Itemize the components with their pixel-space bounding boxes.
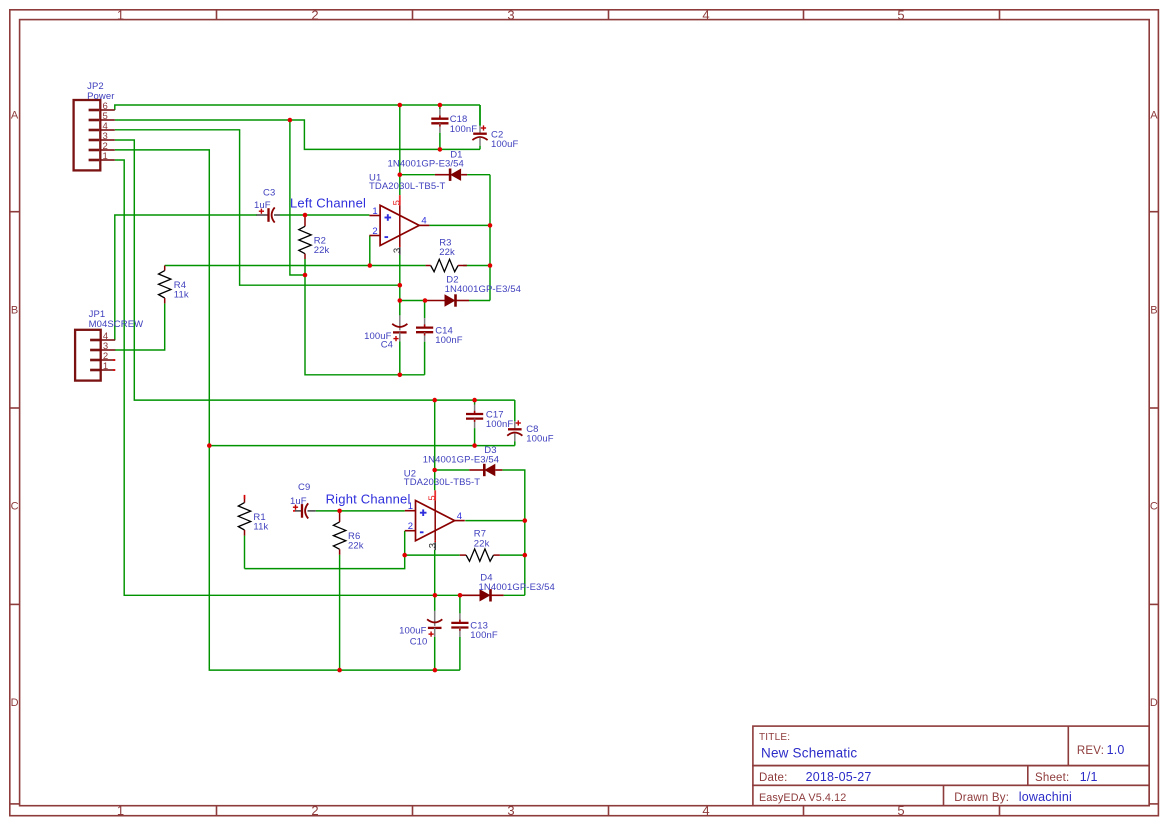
wire D1 row left segment xyxy=(400,174,435,176)
resistor R3 22k xyxy=(426,237,467,271)
svg-text:11k: 11k xyxy=(174,290,189,301)
wire U1 pin2 down to feedback rail xyxy=(369,236,371,266)
wire D3 row left segment xyxy=(435,469,470,471)
svg-text:1N4001GP-E3/54: 1N4001GP-E3/54 xyxy=(423,454,499,465)
wire R4 top feedback rail to R3 left xyxy=(165,265,426,267)
svg-text:New Schematic: New Schematic xyxy=(761,746,857,761)
svg-text:2: 2 xyxy=(408,521,413,532)
wire D3 row right to U2 right column down to D4 row xyxy=(502,470,524,595)
svg-text:1: 1 xyxy=(372,206,377,217)
svg-text:EasyEDA V5.4.12: EasyEDA V5.4.12 xyxy=(759,792,846,804)
svg-text:4: 4 xyxy=(702,8,709,23)
diode D3 1N4001GP-E3/54 xyxy=(423,445,503,476)
node label Left Channel xyxy=(290,196,366,211)
svg-text:100nF: 100nF xyxy=(435,335,463,346)
svg-text:4: 4 xyxy=(702,803,709,818)
wire R6 bottom to ground rail xyxy=(339,555,341,670)
capacitor C18 100nF xyxy=(431,105,477,149)
wire U2 output pin4 to right column xyxy=(465,520,525,522)
wire +V rail from JP2 pin6 to top rail xyxy=(115,105,480,110)
svg-text:A: A xyxy=(11,110,19,122)
wire U1 output pin4 to right column xyxy=(429,224,490,226)
svg-text:TDA2030L-TB5-T: TDA2030L-TB5-T xyxy=(369,181,445,192)
capacitor C13 100nF xyxy=(451,595,498,670)
svg-text:5: 5 xyxy=(897,8,904,23)
svg-text:3: 3 xyxy=(507,8,514,23)
op-amp U1 TDA2030L-TB5-T xyxy=(369,172,445,255)
diode D2 1N4001GP-E3/54 xyxy=(425,275,521,307)
capacitor C3 1uF xyxy=(254,188,280,223)
svg-text:22k: 22k xyxy=(474,538,490,549)
svg-text:5: 5 xyxy=(427,495,438,500)
wire JP2 pin1 to D4 row xyxy=(115,160,435,595)
svg-text:4: 4 xyxy=(457,511,462,522)
resistor R4 11k xyxy=(159,266,189,304)
svg-text:D: D xyxy=(1150,697,1158,709)
svg-text:C: C xyxy=(1150,501,1158,513)
title block xyxy=(753,726,1149,806)
svg-text:M04SCREW: M04SCREW xyxy=(89,319,144,330)
svg-text:2: 2 xyxy=(372,226,377,237)
svg-text:100uF: 100uF xyxy=(526,433,554,444)
svg-text:Right Channel: Right Channel xyxy=(326,491,411,506)
svg-text:C10: C10 xyxy=(410,636,428,647)
wire D2 row right segment xyxy=(469,300,490,302)
op-amp U2 TDA2030L-TB5-T xyxy=(404,468,480,550)
capacitor C14 100nF xyxy=(416,301,463,375)
capacitor C17 100nF xyxy=(466,400,513,446)
resistor R6 22k xyxy=(333,511,363,555)
wire U2 +V column from top rail to pin5 xyxy=(434,400,436,490)
svg-text:Drawn By:: Drawn By: xyxy=(954,792,1009,804)
svg-text:1.0: 1.0 xyxy=(1107,743,1125,757)
wire R3 right to U1 output column xyxy=(463,265,490,267)
svg-text:B: B xyxy=(11,305,18,317)
svg-text:1N4001GP-E3/54: 1N4001GP-E3/54 xyxy=(445,284,521,295)
wire R7 row left segment xyxy=(405,554,460,556)
resistor R1 11k xyxy=(238,495,268,536)
svg-text:Power: Power xyxy=(87,91,114,102)
wire R2 bottom rail to C4/C14 bottom xyxy=(305,275,425,375)
diode D1 1N4001GP-E3/54 xyxy=(388,149,468,181)
svg-text:C: C xyxy=(11,501,19,513)
svg-text:1: 1 xyxy=(117,8,124,23)
svg-text:1uF: 1uF xyxy=(290,496,307,507)
wire JP2 pin4 to U1 inverting node xyxy=(115,130,400,285)
svg-text:100nF: 100nF xyxy=(470,630,498,641)
wire R1 bottom segment xyxy=(244,536,246,569)
capacitor C2 100uF polarized xyxy=(472,105,518,150)
wire C3 left to JP1 pin4 xyxy=(115,215,257,340)
wire D2 row left segment xyxy=(400,300,425,302)
junction dots xyxy=(207,103,527,673)
wire C3 right to U1 pin1 xyxy=(280,214,369,216)
wire U1 +V column to pin5 xyxy=(399,105,401,195)
svg-text:3: 3 xyxy=(392,248,403,253)
wire JP2 pin2 to bottom ground rail xyxy=(115,150,460,670)
svg-text:1N4001GP-E3/54: 1N4001GP-E3/54 xyxy=(479,582,555,593)
wire C17/C8 bottom rail xyxy=(209,445,515,447)
wire branch pin5 node to R2 bottom xyxy=(290,120,305,275)
svg-text:B: B xyxy=(1150,305,1157,317)
connector JP1 M04SCREW xyxy=(75,309,143,381)
wire R7 row right segment xyxy=(500,554,525,556)
svg-text:2018-05-27: 2018-05-27 xyxy=(806,770,872,784)
svg-text:TDA2030L-TB5-T: TDA2030L-TB5-T xyxy=(404,477,480,488)
svg-text:1: 1 xyxy=(103,151,108,162)
svg-text:Left Channel: Left Channel xyxy=(290,196,366,211)
svg-text:2: 2 xyxy=(311,803,318,818)
svg-text:22k: 22k xyxy=(439,247,455,258)
wire JP2 pin3 to C17/C8 top rail xyxy=(115,140,515,400)
wire D1 row right segment xyxy=(467,174,490,176)
svg-text:REV:: REV: xyxy=(1077,745,1104,757)
svg-text:22k: 22k xyxy=(314,245,330,256)
wire C9 right to U2 pin1 xyxy=(316,510,405,512)
wire U2 pin2 down and left to R1 bottom xyxy=(245,531,405,569)
wire JP2 pin5 to C18/C2 bottom rail xyxy=(115,120,480,149)
capacitor C4 100uF polarized xyxy=(364,301,407,375)
wire D4 row right segment xyxy=(504,594,525,596)
wire JP1 pin3 to R4 bottom xyxy=(115,303,165,350)
svg-text:1N4001GP-E3/54: 1N4001GP-E3/54 xyxy=(388,159,464,170)
svg-text:22k: 22k xyxy=(348,541,364,552)
svg-text:100uF: 100uF xyxy=(491,139,519,150)
svg-text:1: 1 xyxy=(103,361,108,372)
svg-text:3: 3 xyxy=(427,543,438,548)
svg-text:1/1: 1/1 xyxy=(1080,770,1098,784)
wire D4 row left segment xyxy=(435,594,460,596)
capacitor C8 100uF polarized xyxy=(507,400,554,446)
svg-text:D: D xyxy=(11,697,19,709)
svg-text:TITLE:: TITLE: xyxy=(759,732,790,743)
svg-text:lowachini: lowachini xyxy=(1019,790,1072,804)
svg-text:C4: C4 xyxy=(381,340,393,351)
capacitor C10 100uF polarized xyxy=(399,595,442,670)
svg-text:5: 5 xyxy=(392,200,403,205)
svg-text:3: 3 xyxy=(507,803,514,818)
svg-text:11k: 11k xyxy=(253,521,268,532)
svg-text:100uF: 100uF xyxy=(399,626,427,637)
resistor R7 22k xyxy=(460,529,500,562)
wire U1 pin3 column down to C4 xyxy=(399,255,401,302)
capacitor C9 1uF xyxy=(290,482,316,519)
svg-text:A: A xyxy=(1150,110,1158,122)
svg-text:1: 1 xyxy=(117,803,124,818)
svg-text:1uF: 1uF xyxy=(254,200,271,211)
diode D4 1N4001GP-E3/54 xyxy=(460,573,555,602)
svg-text:Sheet:: Sheet: xyxy=(1035,772,1069,784)
node label Right Channel xyxy=(326,491,411,506)
wire U1 right column D1 to D2 xyxy=(489,175,491,301)
svg-text:2: 2 xyxy=(311,8,318,23)
svg-text:4: 4 xyxy=(421,216,426,227)
resistor R2 22k xyxy=(299,215,330,275)
svg-text:C3: C3 xyxy=(263,188,275,199)
connector JP2 Power xyxy=(74,81,115,170)
svg-text:Date:: Date: xyxy=(759,772,788,784)
wire U2 pin3 column down to C10 xyxy=(434,550,436,597)
svg-text:C9: C9 xyxy=(298,482,310,493)
svg-text:100nF: 100nF xyxy=(450,124,478,135)
